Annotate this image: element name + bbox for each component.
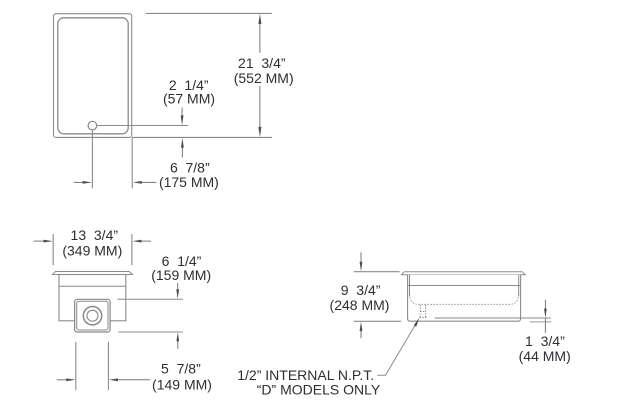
dimension 6 1/4 lower arrow xyxy=(176,332,179,341)
width extension line left xyxy=(52,234,54,265)
dimension 2 1/4 lower arrow xyxy=(181,138,184,148)
dimension 21 3/4 upper arrowhead xyxy=(258,14,261,24)
height extension line bottom xyxy=(354,320,401,322)
inner bottom reference line xyxy=(435,317,551,319)
svg-text:(349 MM): (349 MM) xyxy=(62,243,122,259)
drain fitting square outer xyxy=(75,299,111,332)
svg-text:1 3/4”: 1 3/4” xyxy=(525,333,565,349)
drain width extension line left xyxy=(75,342,77,391)
dimension 6 1/4 upper arrow xyxy=(177,283,179,290)
dimension 5 7/8 right arrow xyxy=(109,378,118,381)
svg-text:5 7/8”: 5 7/8” xyxy=(161,361,201,377)
drain pipe inner circle xyxy=(87,310,98,321)
drain fitting square inner xyxy=(77,301,108,330)
note leader line xyxy=(377,325,415,376)
svg-text:21 3/4”: 21 3/4” xyxy=(238,55,286,71)
dimension 9 3/4 upper arrow xyxy=(360,252,362,262)
short lower reference line xyxy=(530,321,552,323)
NPT fitting hidden mid tick xyxy=(420,311,425,313)
svg-text:(159 MM): (159 MM) xyxy=(151,267,211,283)
sink bowl inner edge (plan) xyxy=(58,18,128,134)
sink outer rim (plan) xyxy=(54,14,132,138)
dimension 9 3/4 lower arrow xyxy=(360,322,363,331)
svg-text:9 3/4”: 9 3/4” xyxy=(341,282,381,298)
front seam line xyxy=(59,285,126,287)
drain hole (plan) xyxy=(88,121,97,130)
svg-text:(149 MM): (149 MM) xyxy=(152,376,212,392)
note leader arrowhead xyxy=(414,318,419,327)
height extension line top xyxy=(354,271,400,273)
drain width extension line right xyxy=(107,342,109,391)
dimension 1 3/4 arrow xyxy=(544,300,546,309)
side inner wall left xyxy=(409,275,411,297)
svg-text:(175 MM): (175 MM) xyxy=(159,174,219,190)
svg-text:13 3/4”: 13 3/4” xyxy=(71,227,119,243)
side flange (rim) xyxy=(402,272,526,275)
bowl inner bottom (hidden, dashed) xyxy=(410,295,519,305)
lower reference line (drain bottom) xyxy=(118,331,183,333)
top edge extension line xyxy=(146,12,272,14)
drain pipe outer circle xyxy=(83,307,101,325)
side seam line xyxy=(408,285,521,287)
svg-text:(44 MM): (44 MM) xyxy=(519,348,571,364)
NPT fitting hidden bottom xyxy=(420,317,427,319)
side inner wall right xyxy=(518,275,520,297)
front flange (rim) xyxy=(52,272,132,275)
right vertical extension line xyxy=(131,137,133,188)
dimension 21 3/4 upper shaft xyxy=(259,24,261,53)
dimension 2 1/4 upper arrow xyxy=(181,108,183,117)
NPT fitting hidden left xyxy=(419,305,421,318)
side body shell xyxy=(408,275,521,321)
drain vertical extension line xyxy=(91,130,93,188)
dimension 13 3/4 left arrow xyxy=(34,240,45,242)
dimension 6 7/8 right arrow xyxy=(133,181,142,184)
dimension 5 7/8 left arrow xyxy=(57,379,67,381)
dimension 13 3/4 right arrow xyxy=(132,240,141,243)
width extension line right xyxy=(131,234,133,265)
dimension 6 7/8 left arrow xyxy=(74,181,84,183)
svg-text:(552 MM): (552 MM) xyxy=(234,70,294,86)
upper reference line (drain top) xyxy=(118,298,183,300)
svg-text:“D” MODELS ONLY: “D” MODELS ONLY xyxy=(257,382,381,398)
bottom edge extension line xyxy=(132,136,272,138)
dimension 21 3/4 lower arrowhead xyxy=(258,127,261,137)
drain centerline leader (right) xyxy=(97,125,189,127)
dimension 21 3/4 lower shaft xyxy=(259,86,261,127)
NPT fitting hidden right xyxy=(425,305,427,318)
front body xyxy=(59,275,126,321)
svg-text:(248 MM): (248 MM) xyxy=(330,297,390,313)
svg-text:(57 MM): (57 MM) xyxy=(163,91,215,107)
